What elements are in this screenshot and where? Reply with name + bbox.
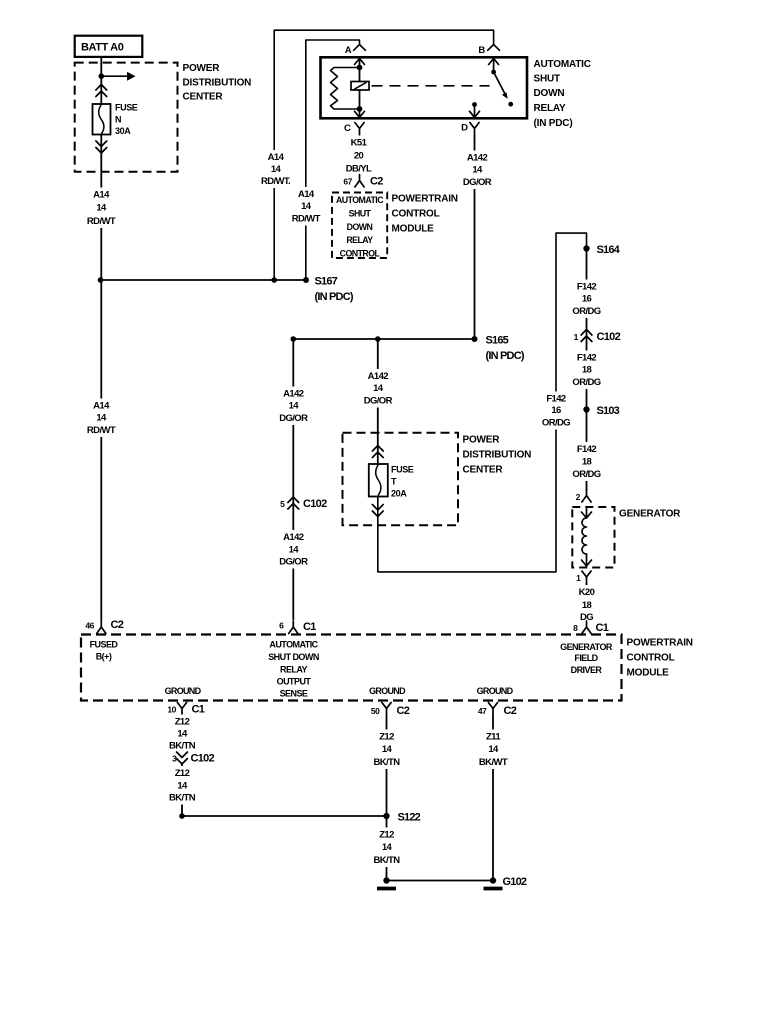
svg-text:T: T	[391, 477, 397, 487]
label: S165 (IN PDC)	[486, 335, 525, 363]
svg-text:AUTOMATIC: AUTOMATIC	[269, 640, 318, 650]
node: corner junction at left of S167 bus	[98, 277, 104, 283]
svg-text:A14: A14	[298, 189, 315, 200]
dashed mechanical link coil to contact	[372, 85, 490, 87]
svg-text:20A: 20A	[391, 488, 407, 498]
svg-text:14: 14	[177, 781, 188, 792]
svg-text:AUTOMATIC: AUTOMATIC	[336, 195, 384, 205]
relay movable contact arm	[494, 72, 514, 107]
connector pin 46 of C2	[97, 621, 106, 634]
label: GROUND (pin 10)	[158, 684, 207, 696]
connector pin 47 of C2 (ground)	[488, 703, 497, 716]
svg-text:A14: A14	[93, 401, 110, 412]
svg-text:Z11: Z11	[486, 732, 501, 743]
wire: C102 to S103	[586, 341, 588, 410]
svg-text:OR/DG: OR/DG	[572, 306, 600, 317]
wire label A142 14 DG/OR (below C102)	[274, 530, 312, 569]
relay pin A entry arrow	[355, 59, 365, 68]
svg-text:46: 46	[85, 621, 94, 631]
svg-text:50: 50	[371, 706, 380, 716]
svg-text:POWER: POWER	[463, 435, 501, 446]
svg-text:C1: C1	[596, 622, 609, 634]
svg-text:C2: C2	[111, 619, 124, 631]
node: splice S103	[583, 406, 589, 412]
wire: S165 splice bus	[293, 338, 474, 340]
svg-text:D: D	[461, 123, 468, 134]
wire label A142 14 DG/OR (from relay D)	[458, 151, 496, 190]
connector pin 10 of C1 (ground)	[177, 703, 186, 716]
node: feed junction below BATT A0	[99, 73, 105, 79]
generator field coil	[582, 518, 587, 554]
svg-text:C2: C2	[504, 705, 517, 717]
wire label Z12 14 BK/TN (below S122)	[369, 828, 405, 868]
svg-text:POWERTRAIN: POWERTRAIN	[392, 194, 458, 205]
label: GROUND (pin 50)	[363, 684, 412, 696]
svg-text:3: 3	[172, 754, 177, 764]
relay switch pivot node	[491, 70, 496, 75]
svg-text:S122: S122	[398, 812, 421, 824]
connector chevrons above fuse T	[372, 446, 383, 452]
svg-text:18: 18	[582, 365, 592, 376]
node: ground branch corner	[179, 813, 185, 819]
svg-text:SHUT: SHUT	[534, 73, 561, 84]
wire: S164 down to C102 pin 1	[586, 249, 588, 342]
svg-text:AUTOMATIC: AUTOMATIC	[534, 59, 591, 70]
label: POWER DISTRIBUTION CENTER (middle)	[463, 435, 532, 476]
wire label A142 14 DG/OR (above C102)	[274, 387, 312, 426]
svg-text:F142: F142	[577, 282, 597, 293]
wire: top bus to relay terminal B	[274, 30, 493, 280]
svg-text:Z12: Z12	[175, 717, 190, 728]
connector pin 2 of generator	[582, 490, 591, 503]
svg-text:14: 14	[271, 164, 282, 175]
svg-text:(IN PDC): (IN PDC)	[315, 291, 354, 303]
svg-text:FUSED: FUSED	[90, 640, 119, 650]
svg-text:A142: A142	[368, 371, 389, 382]
wire label A14 14 RD/WT (bus 2)	[287, 187, 325, 226]
wire: pin 10 to C102 pin 3	[181, 715, 183, 751]
svg-text:16: 16	[551, 405, 561, 416]
wire: ground bus to S122	[182, 815, 387, 817]
wire: fuse N down to S167	[100, 135, 102, 281]
svg-text:GROUND: GROUND	[369, 686, 406, 696]
svg-text:DISTRIBUTION: DISTRIBUTION	[463, 450, 532, 461]
svg-text:(IN PDC): (IN PDC)	[486, 350, 525, 362]
connector Y at terminal D	[470, 123, 479, 136]
svg-text:DRIVER: DRIVER	[571, 665, 603, 675]
relay pin D exit arrow	[470, 105, 480, 118]
svg-text:F142: F142	[577, 444, 597, 455]
svg-text:OUTPUT: OUTPUT	[277, 676, 312, 686]
svg-text:DG/OR: DG/OR	[364, 396, 393, 407]
svg-text:DG/OR: DG/OR	[279, 413, 308, 424]
label: AUTOMATIC SHUT DOWN RELAY OUTPUT SENSE	[268, 640, 319, 699]
node: junction bus1 on S167	[271, 277, 277, 283]
svg-text:S103: S103	[597, 405, 620, 417]
svg-text:G102: G102	[503, 876, 527, 888]
label: POWER DISTRIBUTION CENTER (upper left)	[183, 63, 252, 103]
svg-text:Z12: Z12	[175, 768, 190, 779]
fuse N 30A (in PDC)	[93, 104, 111, 135]
svg-text:DG/OR: DG/OR	[463, 177, 492, 188]
svg-text:OR/DG: OR/DG	[542, 418, 570, 429]
label: AUTOMATIC SHUT DOWN RELAY (IN PDC)	[534, 59, 591, 129]
svg-text:F142: F142	[546, 394, 566, 405]
node: junction to fuse T branch	[375, 336, 381, 342]
powertrain control module box (lower, dashed)	[81, 635, 622, 701]
node: splice S164	[583, 245, 589, 251]
svg-text:BK/TN: BK/TN	[169, 741, 196, 752]
svg-text:B: B	[478, 45, 485, 56]
svg-text:C1: C1	[192, 704, 205, 716]
svg-text:RELAY: RELAY	[534, 103, 567, 114]
relay coil element	[351, 68, 369, 110]
svg-text:C102: C102	[191, 753, 215, 765]
connector chevron at terminal B	[488, 45, 500, 51]
label: POWERTRAIN CONTROL MODULE (lower)	[627, 638, 693, 679]
svg-text:20: 20	[354, 151, 364, 162]
svg-text:DG/OR: DG/OR	[279, 557, 308, 568]
svg-text:C102: C102	[597, 331, 621, 343]
svg-text:DISTRIBUTION: DISTRIBUTION	[183, 77, 252, 88]
svg-text:A142: A142	[283, 532, 304, 543]
svg-text:GENERATOR: GENERATOR	[619, 509, 681, 520]
wire label K20 18 DG	[570, 585, 604, 624]
svg-text:16: 16	[582, 294, 592, 305]
svg-text:14: 14	[289, 545, 300, 556]
svg-text:6: 6	[279, 621, 284, 631]
svg-text:30A: 30A	[115, 126, 131, 136]
wire label K51 20 DB/YL	[340, 136, 378, 176]
arrow: feed tap to right	[101, 72, 135, 81]
svg-text:RD/WT: RD/WT	[87, 425, 116, 436]
svg-text:18: 18	[582, 457, 592, 468]
battery feed label box BATT A0	[75, 36, 143, 57]
svg-text:C: C	[344, 123, 351, 134]
wire: fuse T output to generator sense riser	[378, 233, 587, 572]
node: splice S165	[472, 336, 478, 342]
svg-text:MODULE: MODULE	[392, 224, 435, 235]
generator field entry arrow	[582, 508, 592, 518]
label: FUSE N 30A	[115, 103, 138, 137]
svg-text:BK/WT: BK/WT	[479, 757, 508, 768]
svg-text:RELAY: RELAY	[346, 235, 373, 245]
svg-text:SHUT: SHUT	[349, 208, 372, 218]
connector Y at terminal C	[355, 123, 364, 136]
wire label Z12 14 BK/TN (pin 10 lower)	[164, 766, 200, 805]
relay coil top node	[357, 65, 363, 71]
wire: S167 down to PCM pin 46	[100, 280, 102, 621]
svg-text:14: 14	[96, 413, 107, 424]
wire: S103 down to generator pin 2	[586, 410, 588, 491]
svg-text:C1: C1	[303, 621, 316, 633]
wire: second bus to relay terminal A	[306, 40, 360, 280]
svg-text:Z12: Z12	[379, 732, 394, 743]
svg-text:(IN PDC): (IN PDC)	[534, 118, 573, 129]
svg-text:N: N	[115, 114, 121, 124]
svg-text:BK/TN: BK/TN	[373, 855, 400, 866]
svg-text:47: 47	[478, 706, 487, 716]
svg-text:S164: S164	[597, 244, 621, 256]
wire: C102 pin 3 to ground splice	[181, 764, 183, 816]
svg-text:BATT A0: BATT A0	[81, 42, 124, 54]
svg-text:A14: A14	[93, 190, 110, 201]
wire: generator to PCM pin 8	[586, 584, 588, 621]
connector pin 6 of C1	[289, 621, 298, 634]
wire: pin 47 to G102	[492, 715, 494, 881]
svg-text:1: 1	[576, 573, 581, 583]
svg-text:2: 2	[576, 492, 581, 502]
relay coil bottom node	[357, 106, 363, 112]
svg-text:14: 14	[96, 203, 107, 214]
svg-text:F142: F142	[577, 353, 597, 364]
svg-text:RD/WT: RD/WT	[292, 214, 321, 225]
svg-text:GENERATOR: GENERATOR	[560, 642, 613, 652]
label: GROUND (pin 47)	[470, 684, 519, 696]
svg-text:A142: A142	[283, 389, 304, 400]
svg-text:SENSE: SENSE	[280, 689, 308, 699]
power distribution center box (upper left, dashed)	[75, 63, 178, 172]
power distribution center box (middle, dashed)	[343, 433, 459, 526]
label: GENERATOR FIELD DRIVER	[560, 642, 613, 675]
relay stationary contact node	[472, 102, 477, 107]
wire: S165 to PCM pin 6	[292, 339, 294, 620]
svg-text:14: 14	[382, 842, 393, 853]
svg-text:14: 14	[382, 744, 393, 755]
svg-text:S165: S165	[486, 335, 509, 347]
svg-text:POWER: POWER	[183, 63, 221, 74]
svg-text:18: 18	[582, 600, 592, 611]
wire label Z11 14 BK/WT (pin 47)	[475, 730, 511, 770]
node: splice S122	[383, 813, 389, 819]
svg-text:14: 14	[373, 383, 384, 394]
connector pin 50 of C2 (ground)	[382, 703, 391, 716]
wire label A14 14 RD/WT (left, lower)	[82, 399, 120, 438]
svg-text:BK/TN: BK/TN	[373, 757, 400, 768]
svg-text:A14: A14	[268, 152, 285, 163]
wire label F142 16 OR/DG (riser)	[537, 392, 575, 430]
in-line connector C102 pin 3 chevrons	[177, 759, 188, 765]
svg-text:GROUND: GROUND	[477, 686, 514, 696]
svg-text:MODULE: MODULE	[627, 668, 670, 679]
svg-text:K51: K51	[351, 138, 368, 149]
label: AUTOMATIC SHUT DOWN RELAY CONTROL	[336, 195, 384, 258]
wire label F142 18 OR/DG (below S103)	[568, 442, 606, 481]
wire label F142 18 OR/DG (above S103)	[568, 351, 606, 390]
connector chevron at terminal A	[354, 45, 366, 51]
svg-text:CONTROL: CONTROL	[340, 248, 381, 258]
wire: ground bus S122 branch to G102	[387, 880, 494, 882]
svg-text:B(+): B(+)	[96, 652, 112, 662]
svg-text:14: 14	[289, 401, 300, 412]
in-line connector C102 pin 5 chevrons	[288, 497, 299, 503]
in-line connector C102 pin 1 chevrons	[581, 330, 592, 336]
connector chevrons below fuse N	[96, 148, 107, 154]
svg-text:8: 8	[573, 623, 578, 633]
svg-text:S167: S167	[315, 276, 338, 288]
svg-text:C2: C2	[370, 176, 383, 188]
generator box (dashed)	[572, 507, 614, 568]
label: POWERTRAIN CONTROL MODULE (upper)	[392, 194, 458, 235]
svg-text:DOWN: DOWN	[347, 222, 373, 232]
wire label A14 14 RD/WT (left, upper)	[82, 188, 120, 229]
automatic shut down relay box (solid)	[321, 57, 528, 118]
svg-text:A142: A142	[467, 153, 488, 164]
svg-text:FUSE: FUSE	[391, 465, 414, 475]
svg-text:CENTER: CENTER	[183, 92, 224, 103]
svg-text:14: 14	[472, 165, 483, 176]
svg-text:CENTER: CENTER	[463, 465, 504, 476]
svg-text:SHUT DOWN: SHUT DOWN	[268, 652, 319, 662]
svg-text:GROUND: GROUND	[165, 686, 202, 696]
svg-text:Z12: Z12	[379, 830, 394, 841]
connector chevrons above fuse N	[96, 85, 107, 91]
label: FUSED B(+)	[90, 640, 119, 662]
svg-text:67: 67	[343, 177, 352, 187]
svg-text:FUSE: FUSE	[115, 103, 138, 113]
svg-text:14: 14	[488, 744, 499, 755]
generator field exit arrow	[582, 554, 592, 566]
wire label Z12 14 BK/TN (pin 50)	[369, 730, 405, 770]
svg-text:BK/TN: BK/TN	[169, 793, 196, 804]
ground G102	[484, 877, 503, 888]
wire label A142 14 DG/OR (above fuse T)	[359, 369, 397, 408]
svg-text:FIELD: FIELD	[574, 653, 598, 663]
connector pin 1 of generator	[582, 571, 591, 584]
node: junction to C102 branch	[291, 336, 297, 342]
svg-text:DOWN: DOWN	[534, 88, 565, 99]
wire label Z12 14 BK/TN (pin 10 upper)	[164, 715, 200, 753]
svg-text:14: 14	[301, 201, 312, 212]
svg-text:10: 10	[167, 705, 176, 715]
label: S167 (IN PDC)	[315, 276, 354, 304]
resistor (relay suppression) zigzag	[331, 68, 360, 110]
svg-text:K20: K20	[579, 587, 595, 598]
ground symbol (left)	[377, 877, 396, 888]
svg-text:RD/WT: RD/WT	[87, 216, 116, 227]
fuse T 20A (in PDC)	[369, 464, 388, 497]
svg-text:C102: C102	[303, 498, 327, 510]
svg-text:CONTROL: CONTROL	[627, 653, 675, 664]
wire: BATT A0 down to fuse N	[100, 57, 102, 105]
svg-text:14: 14	[177, 729, 188, 740]
svg-text:RELAY: RELAY	[280, 664, 307, 674]
wire: S122 down to ground G102	[386, 816, 388, 881]
svg-text:1: 1	[574, 332, 579, 342]
relay pin C exit arrow	[355, 109, 365, 117]
wire: S165 down into PDC to fuse T	[377, 339, 379, 465]
powertrain control module box (upper, dashed)	[332, 193, 387, 259]
connector pin 67 of C2	[355, 175, 364, 188]
svg-text:RD/WT.: RD/WT.	[261, 176, 290, 187]
label: FUSE T 20A	[391, 465, 414, 499]
svg-text:OR/DG: OR/DG	[572, 377, 600, 388]
node: splice S167	[303, 277, 309, 283]
relay pin B entry arrow	[489, 59, 499, 72]
svg-text:OR/DG: OR/DG	[572, 469, 600, 480]
wire label F142 16 OR/DG (below S164)	[568, 280, 606, 319]
svg-text:DB/YL: DB/YL	[346, 164, 372, 175]
svg-text:A: A	[345, 45, 352, 56]
wire label A14 14 RD/WT. (bus 1)	[257, 150, 295, 188]
svg-text:CONTROL: CONTROL	[392, 209, 440, 220]
wire: pin 50 to S122	[386, 715, 388, 816]
connector pin 8 of C1	[582, 621, 591, 634]
wire: relay D to splice S165	[474, 135, 476, 339]
wire: S167 splice bus	[101, 279, 306, 281]
svg-text:5: 5	[280, 499, 285, 509]
svg-text:POWERTRAIN: POWERTRAIN	[627, 638, 693, 649]
svg-text:C2: C2	[397, 705, 410, 717]
connector chevrons below fuse T	[372, 511, 383, 517]
